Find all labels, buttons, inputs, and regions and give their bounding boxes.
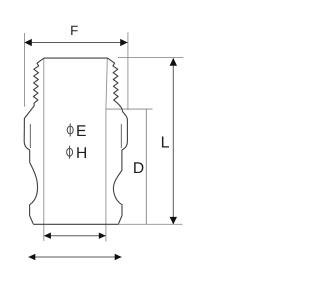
svg-text:E: E xyxy=(76,123,86,140)
svg-text:D: D xyxy=(133,160,144,177)
svg-text:H: H xyxy=(76,145,87,162)
svg-text:F: F xyxy=(70,23,78,38)
svg-text:L: L xyxy=(161,134,170,151)
